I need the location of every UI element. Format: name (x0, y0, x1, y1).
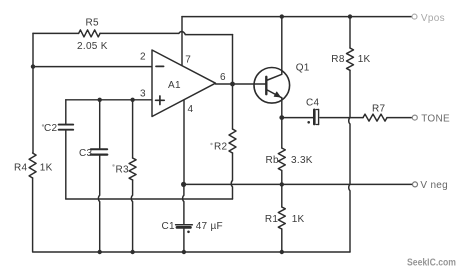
svg-text:R2: R2 (214, 142, 228, 153)
svg-text:3: 3 (140, 89, 146, 100)
svg-text:47 µF: 47 µF (196, 221, 223, 232)
svg-text:SeekIC.com: SeekIC.com (407, 258, 456, 269)
svg-text:Vpos: Vpos (421, 13, 445, 24)
svg-text:1K: 1K (40, 163, 53, 174)
svg-text:R4: R4 (14, 163, 28, 174)
svg-text:C2: C2 (44, 123, 58, 134)
svg-text:1K: 1K (292, 214, 305, 225)
svg-text:R7: R7 (372, 104, 386, 115)
svg-text:A1: A1 (168, 80, 181, 91)
svg-text:C3: C3 (79, 148, 93, 159)
svg-text:2: 2 (140, 52, 146, 63)
svg-text:C4: C4 (306, 98, 320, 109)
svg-text:TONE: TONE (421, 114, 450, 125)
svg-text:Q1: Q1 (296, 63, 310, 74)
svg-text:2.05 K: 2.05 K (77, 41, 108, 52)
svg-text:Rb: Rb (266, 155, 280, 166)
svg-text:C1: C1 (162, 221, 176, 232)
svg-text:3.3K: 3.3K (291, 155, 313, 166)
svg-text:V neg: V neg (420, 180, 448, 191)
svg-text:R5: R5 (86, 18, 100, 29)
svg-text:4: 4 (188, 104, 194, 115)
svg-text:R1: R1 (265, 214, 279, 225)
svg-text:1K: 1K (358, 54, 371, 65)
svg-text:R8: R8 (331, 54, 345, 65)
svg-text:6: 6 (220, 72, 226, 83)
svg-text:7: 7 (185, 55, 191, 66)
svg-text:R3: R3 (116, 165, 130, 176)
